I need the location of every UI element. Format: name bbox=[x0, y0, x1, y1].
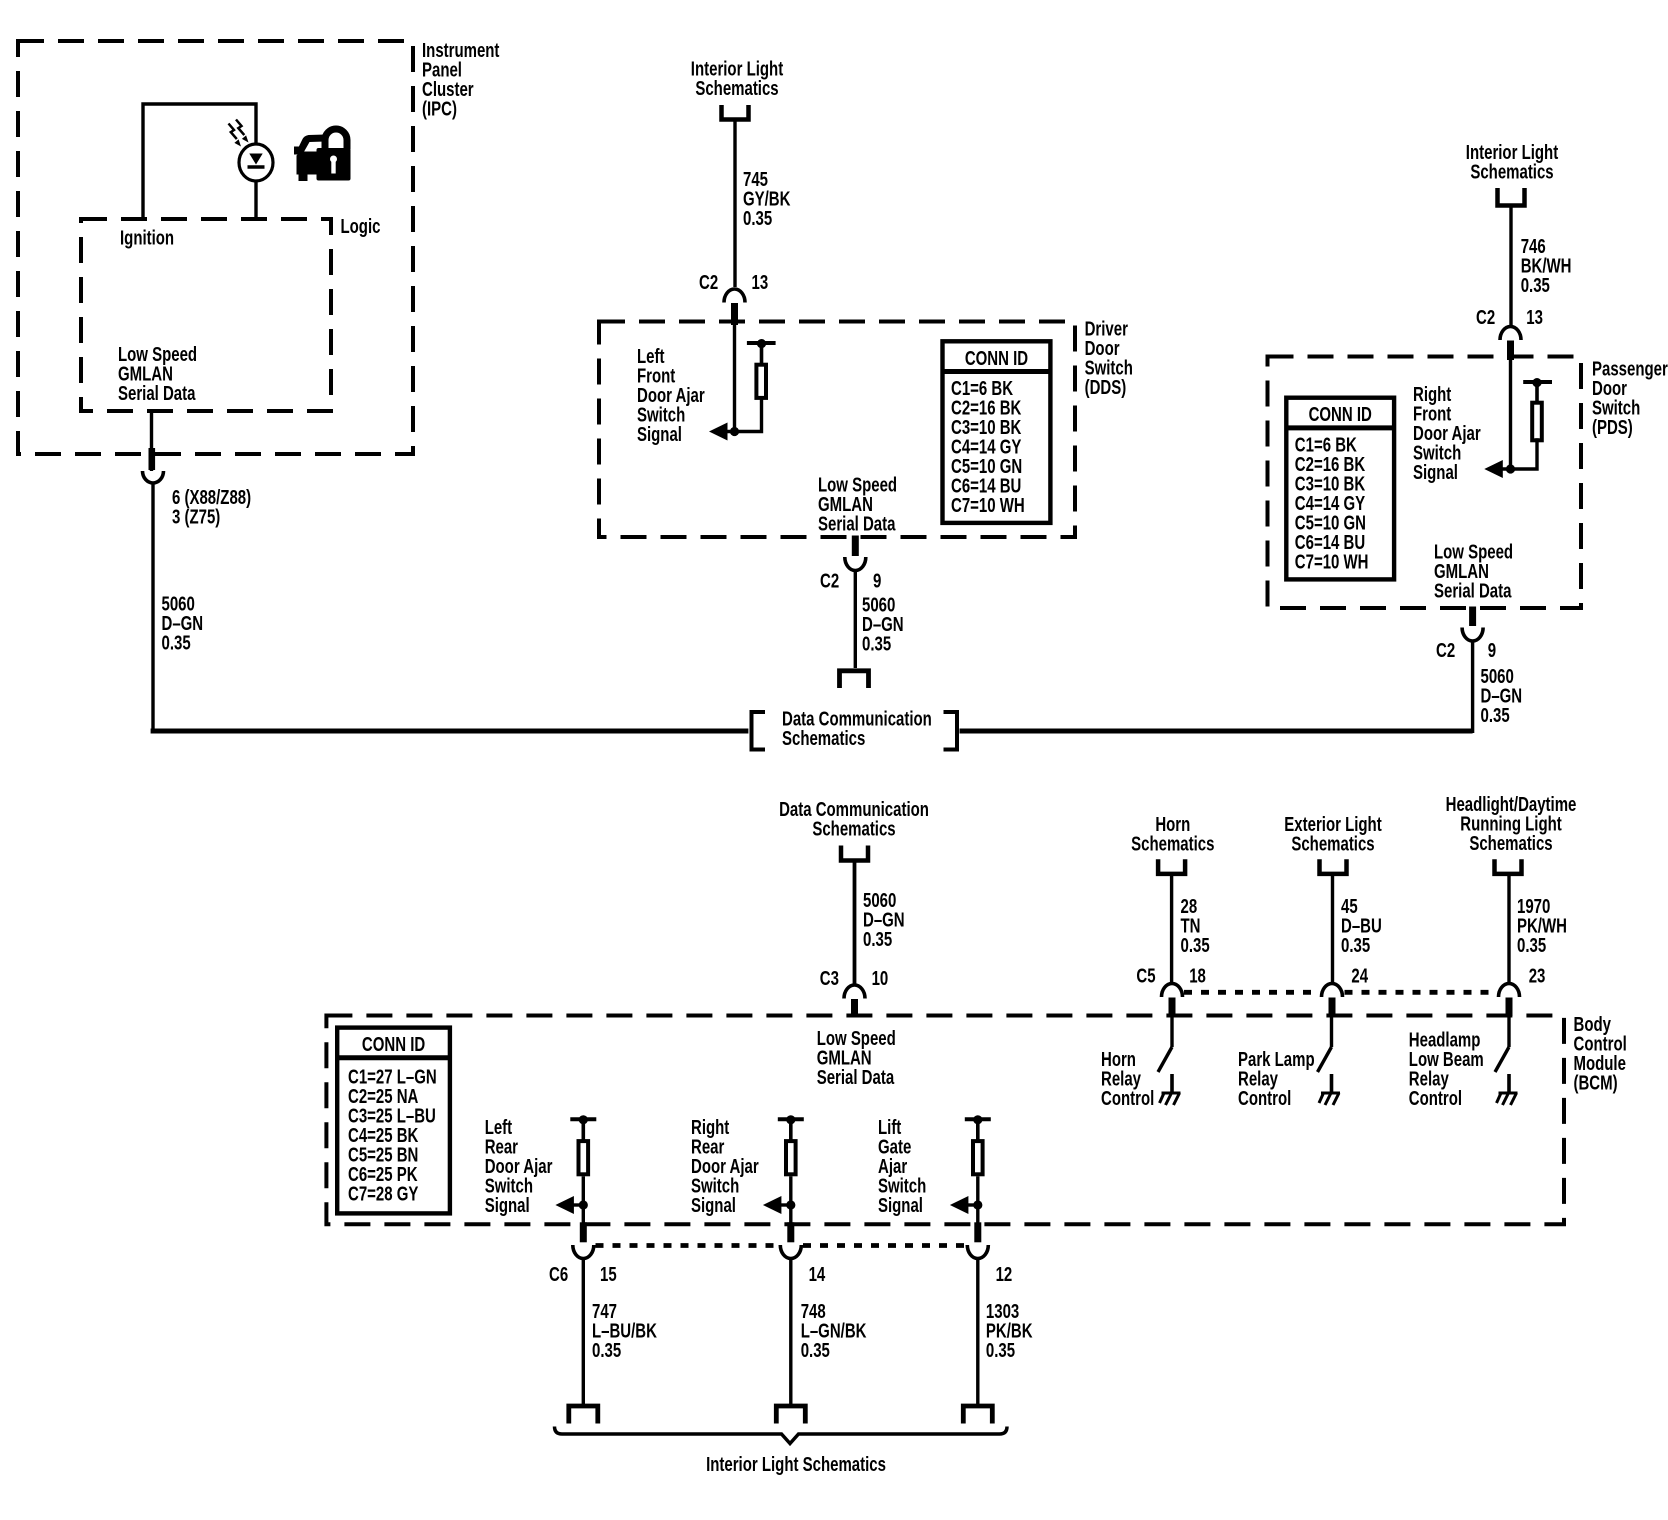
label wire 5060 D-GN 0.35 (IPC) bbox=[162, 593, 204, 655]
node junction (DDS) bbox=[730, 427, 739, 436]
label C6 pin 15 bbox=[549, 1263, 617, 1286]
connector C3 pin 10 into BCM bbox=[844, 985, 865, 1016]
svg-text:Control: Control bbox=[1101, 1087, 1154, 1110]
node junction (Right Rear Door Ajar Switch Signal) bbox=[786, 1200, 795, 1209]
wire resistor to junction (Lift Gate Ajar Switch Signal) bbox=[976, 1176, 979, 1205]
terminal bar above resistor (Left Rear Door Ajar Switch Signal) bbox=[570, 1115, 596, 1141]
svg-text:C2: C2 bbox=[1436, 639, 1455, 662]
svg-text:C2: C2 bbox=[699, 271, 718, 294]
label wire 747 L-BU/BK 0.35 bbox=[592, 1300, 657, 1362]
wire DDS switch signal bbox=[733, 322, 736, 432]
ground (Park Lamp relay) bbox=[1319, 1074, 1340, 1105]
off-page connector (interior light right) bbox=[1498, 188, 1525, 206]
svg-text:Signal: Signal bbox=[1413, 461, 1458, 484]
off-page connector (right rear door wire) bbox=[776, 1406, 805, 1424]
wire relay control (Headlamp) bbox=[1507, 1017, 1510, 1047]
wire arrow shaft (Lift Gate Ajar Switch Signal) bbox=[967, 1203, 978, 1206]
svg-text:3 (Z75): 3 (Z75) bbox=[172, 505, 220, 528]
svg-text:15: 15 bbox=[600, 1263, 617, 1286]
svg-text:C7=28 GY: C7=28 GY bbox=[348, 1182, 419, 1205]
wire arrow shaft (Left Rear Door Ajar Switch Signal) bbox=[572, 1203, 583, 1206]
label Low Speed GMLAN Serial Data (IPC) bbox=[118, 343, 197, 405]
label Lift Gate Ajar Switch Signal bbox=[878, 1116, 926, 1217]
svg-text:Interior Light Schematics: Interior Light Schematics bbox=[706, 1453, 886, 1476]
label DDS name bbox=[1085, 317, 1133, 398]
light-ray arrows into LED bbox=[229, 120, 249, 147]
dotted connector tie (BCM bottom) bbox=[596, 1243, 967, 1248]
label Low Speed GMLAN Serial Data (DDS) bbox=[818, 473, 897, 535]
terminal bar above resistor (Right Rear Door Ajar Switch Signal) bbox=[778, 1115, 804, 1141]
connector 6 (X88/Z88) / 3 (Z75) at IPC bbox=[143, 448, 164, 733]
box Driver Door Switch (DDS) bbox=[599, 322, 1075, 538]
svg-text:0.35: 0.35 bbox=[1341, 934, 1370, 957]
icon car with padlock (security indicator) bbox=[294, 129, 351, 181]
arrow switch signal (PDS) bbox=[1484, 460, 1503, 478]
label Low Speed GMLAN Serial Data (PDS) bbox=[1434, 540, 1513, 602]
svg-text:9: 9 bbox=[873, 570, 881, 593]
wire to connector (Right Rear Door Ajar Switch Signal) bbox=[789, 1205, 792, 1223]
svg-text:0.35: 0.35 bbox=[986, 1339, 1015, 1362]
connector C2 pin 9 out of DDS bbox=[845, 536, 866, 669]
label pin 24 bbox=[1351, 964, 1368, 987]
svg-text:0.35: 0.35 bbox=[862, 632, 891, 655]
svg-text:0.35: 0.35 bbox=[1521, 274, 1550, 297]
svg-text:Control: Control bbox=[1238, 1087, 1291, 1110]
svg-text:10: 10 bbox=[872, 967, 889, 990]
svg-text:C5: C5 bbox=[1136, 964, 1155, 987]
svg-text:Signal: Signal bbox=[485, 1194, 530, 1217]
switch relay contact (Park Lamp) bbox=[1318, 1047, 1332, 1072]
arrow switch signal (Left Rear Door Ajar Switch Signal) bbox=[555, 1196, 574, 1214]
off-page connector (interior light top) bbox=[722, 105, 749, 120]
table CONN ID (PDS) bbox=[1286, 398, 1394, 580]
label pin 14 bbox=[809, 1263, 826, 1286]
label Left Front Door Ajar Switch Signal bbox=[637, 345, 705, 446]
connector pin 24 into BCM bbox=[1322, 984, 1343, 1017]
svg-text:Schematics: Schematics bbox=[812, 817, 895, 840]
arrow switch signal (DDS) bbox=[709, 423, 728, 441]
label Logic bbox=[341, 215, 381, 238]
svg-text:0.35: 0.35 bbox=[1481, 704, 1510, 727]
label IPC name bbox=[422, 39, 500, 120]
node junction (PDS) bbox=[1506, 464, 1515, 473]
label Exterior Light Schematics bbox=[1284, 813, 1381, 855]
off-page connector (headlight) bbox=[1495, 859, 1522, 874]
wire resistor to junction (PDS) bbox=[1499, 438, 1537, 469]
resistor pull-up (PDS) bbox=[1532, 403, 1542, 441]
svg-text:0.35: 0.35 bbox=[743, 207, 772, 230]
label wire 28 TN 0.35 bbox=[1181, 895, 1210, 957]
svg-text:C7=10 WH: C7=10 WH bbox=[951, 494, 1025, 517]
label Interior Light Schematics (bottom) bbox=[706, 1453, 886, 1476]
box Instrument Panel Cluster (IPC) bbox=[18, 41, 413, 454]
label wire 746 BK/WH 0.35 bbox=[1521, 235, 1572, 297]
svg-text:9: 9 bbox=[1488, 639, 1496, 662]
connector C5 pin 18 into BCM bbox=[1162, 984, 1183, 1017]
label wire 45 D-BU 0.35 bbox=[1341, 895, 1382, 957]
wire PDS switch signal bbox=[1509, 357, 1512, 469]
svg-text:0.35: 0.35 bbox=[863, 928, 892, 951]
svg-text:C2: C2 bbox=[820, 570, 839, 593]
bracket right of Data Communication bbox=[944, 712, 958, 750]
arrow switch signal (Right Rear Door Ajar Switch Signal) bbox=[763, 1196, 782, 1214]
wire relay control (Park Lamp) bbox=[1330, 1017, 1333, 1047]
wire data bus right segment bbox=[960, 729, 1473, 734]
label wire 1970 PK/WH 0.35 bbox=[1517, 895, 1567, 957]
connector C6 pin 15 out of BCM bbox=[573, 1222, 594, 1404]
svg-text:0.35: 0.35 bbox=[801, 1339, 830, 1362]
svg-text:13: 13 bbox=[752, 271, 769, 294]
wire 745 bbox=[733, 121, 736, 287]
label Low Speed GMLAN Serial Data (BCM) bbox=[817, 1027, 896, 1089]
resistor (Lift Gate Ajar Switch Signal) bbox=[973, 1141, 983, 1174]
label C2 pin 13 (DDS) bbox=[699, 271, 768, 294]
label Park Lamp Relay Control bbox=[1238, 1048, 1315, 1110]
label Ignition bbox=[120, 226, 174, 249]
svg-text:Serial Data: Serial Data bbox=[818, 512, 896, 535]
label BCM name bbox=[1574, 1013, 1627, 1094]
svg-text:Schematics: Schematics bbox=[695, 77, 778, 100]
label 6 (X88/Z88) 3 (Z75) bbox=[172, 486, 251, 528]
label Interior Light Schematics (right) bbox=[1466, 141, 1558, 183]
dotted connector tie (BCM top) bbox=[1184, 990, 1497, 995]
box Passenger Door Switch (PDS) bbox=[1268, 357, 1582, 609]
svg-text:(PDS): (PDS) bbox=[1592, 416, 1633, 439]
label wire 748 L-GN/BK 0.35 bbox=[801, 1300, 867, 1362]
arrow switch signal (Lift Gate Ajar Switch Signal) bbox=[950, 1196, 969, 1214]
wire to connector (Left Rear Door Ajar Switch Signal) bbox=[582, 1205, 585, 1223]
svg-text:(IPC): (IPC) bbox=[422, 97, 457, 120]
ground (Headlamp relay) bbox=[1497, 1074, 1518, 1105]
svg-text:C2: C2 bbox=[1476, 306, 1495, 329]
bracket left of Data Communication bbox=[752, 712, 766, 750]
svg-text:24: 24 bbox=[1351, 964, 1368, 987]
label C2 pin 9 (PDS) bbox=[1436, 639, 1496, 662]
wire 5060 to BCM bbox=[853, 862, 857, 985]
node junction (Left Rear Door Ajar Switch Signal) bbox=[579, 1200, 588, 1209]
label C5 pin 18 bbox=[1136, 964, 1206, 987]
svg-text:Control: Control bbox=[1409, 1087, 1462, 1110]
label Data Communication Schematics (middle) bbox=[779, 798, 929, 840]
wire ignition to LED bbox=[143, 104, 256, 219]
off-page connector (data comm middle) bbox=[841, 846, 868, 861]
svg-text:Serial Data: Serial Data bbox=[817, 1066, 895, 1089]
label Headlamp Low Beam Relay Control bbox=[1409, 1028, 1484, 1109]
label Interior Light Schematics (top) bbox=[691, 58, 783, 100]
svg-text:(DDS): (DDS) bbox=[1085, 376, 1127, 399]
svg-text:C7=10 WH: C7=10 WH bbox=[1295, 550, 1369, 573]
svg-text:Schematics: Schematics bbox=[1291, 832, 1374, 855]
wire resistor to junction (DDS) bbox=[723, 399, 762, 431]
label Horn Relay Control bbox=[1101, 1048, 1154, 1110]
svg-text:Schematics: Schematics bbox=[1131, 832, 1214, 855]
svg-text:Ignition: Ignition bbox=[120, 226, 174, 249]
label Right Rear Door Ajar Switch Signal bbox=[691, 1116, 759, 1217]
box Logic (inner) bbox=[81, 219, 331, 411]
svg-text:Serial Data: Serial Data bbox=[1434, 579, 1512, 602]
svg-text:0.35: 0.35 bbox=[162, 632, 191, 655]
label Data Communication Schematics (bus) bbox=[782, 708, 932, 750]
svg-text:CONN ID: CONN ID bbox=[362, 1033, 425, 1056]
terminal bar above resistor (PDS) bbox=[1523, 378, 1552, 403]
svg-text:Serial Data: Serial Data bbox=[118, 382, 196, 405]
wire arrow shaft (Right Rear Door Ajar Switch Signal) bbox=[780, 1203, 791, 1206]
svg-text:18: 18 bbox=[1189, 964, 1206, 987]
wire 746 bbox=[1509, 207, 1512, 325]
connector pin 23 into BCM bbox=[1499, 984, 1520, 1017]
label wire 745 GY/BK 0.35 bbox=[743, 168, 791, 230]
ground (Horn relay) bbox=[1160, 1074, 1181, 1105]
table CONN ID (BCM) bbox=[337, 1028, 450, 1214]
connector C2 pin 9 out of PDS bbox=[1462, 607, 1483, 734]
label C3 pin 10 (BCM) bbox=[820, 967, 889, 990]
label Headlight/Daytime Running Light Schematics bbox=[1446, 793, 1577, 855]
wire resistor to junction (Right Rear Door Ajar Switch Signal) bbox=[789, 1176, 792, 1205]
svg-text:12: 12 bbox=[996, 1263, 1013, 1286]
LED indicator lamp bbox=[239, 144, 273, 219]
svg-text:0.35: 0.35 bbox=[592, 1339, 621, 1362]
label C2 pin 9 (DDS) bbox=[820, 570, 881, 593]
label wire 1303 PK/BK 0.35 bbox=[986, 1300, 1033, 1362]
label wire 5060 D-GN 0.35 (PDS) bbox=[1481, 665, 1523, 727]
svg-text:Signal: Signal bbox=[691, 1194, 736, 1217]
off-page connector (lift gate wire) bbox=[963, 1406, 992, 1424]
svg-text:Signal: Signal bbox=[878, 1194, 923, 1217]
off-page connector (horn) bbox=[1158, 859, 1185, 874]
label Right Front Door Ajar Switch Signal bbox=[1413, 383, 1481, 484]
svg-text:CONN ID: CONN ID bbox=[1309, 403, 1372, 426]
wire data bus left segment bbox=[151, 729, 749, 734]
switch relay contact (Headlamp) bbox=[1495, 1047, 1509, 1072]
svg-text:C6: C6 bbox=[549, 1263, 568, 1286]
svg-text:23: 23 bbox=[1529, 964, 1546, 987]
table CONN ID (DDS) bbox=[943, 341, 1051, 523]
wire to connector (Lift Gate Ajar Switch Signal) bbox=[976, 1205, 979, 1223]
label PDS name bbox=[1592, 357, 1668, 438]
svg-text:CONN ID: CONN ID bbox=[965, 347, 1028, 370]
svg-text:Schematics: Schematics bbox=[1469, 832, 1552, 855]
wire 45 bbox=[1331, 875, 1334, 983]
label wire 5060 D-GN 0.35 (DDS) bbox=[862, 593, 904, 655]
connector C2 pin 13 into PDS bbox=[1500, 327, 1521, 361]
svg-text:Schematics: Schematics bbox=[1470, 160, 1553, 183]
resistor (Right Rear Door Ajar Switch Signal) bbox=[786, 1141, 796, 1174]
off-page connector (exterior light) bbox=[1320, 859, 1347, 874]
svg-text:Signal: Signal bbox=[637, 423, 682, 446]
wire resistor to junction (Left Rear Door Ajar Switch Signal) bbox=[582, 1176, 585, 1205]
node junction (Lift Gate Ajar Switch Signal) bbox=[973, 1200, 982, 1209]
svg-text:14: 14 bbox=[809, 1263, 826, 1286]
svg-text:0.35: 0.35 bbox=[1517, 934, 1546, 957]
switch relay contact (Horn) bbox=[1158, 1047, 1172, 1072]
off-page connector to data bus (DDS) bbox=[840, 671, 869, 688]
svg-text:13: 13 bbox=[1526, 306, 1543, 329]
svg-text:0.35: 0.35 bbox=[1181, 934, 1210, 957]
wire relay control (Horn) bbox=[1170, 1017, 1173, 1047]
label C2 pin 13 (PDS) bbox=[1476, 306, 1543, 329]
label pin 12 bbox=[996, 1263, 1013, 1286]
terminal bar above resistor (DDS) bbox=[747, 339, 776, 364]
label Horn Schematics bbox=[1131, 813, 1214, 855]
svg-text:Schematics: Schematics bbox=[782, 727, 865, 750]
connector pin 12 out of BCM bbox=[967, 1222, 988, 1404]
svg-text:(BCM): (BCM) bbox=[1574, 1071, 1618, 1094]
resistor (Left Rear Door Ajar Switch Signal) bbox=[579, 1141, 589, 1174]
svg-text:C3: C3 bbox=[820, 967, 839, 990]
wire 1970 bbox=[1507, 875, 1510, 983]
resistor pull-up (DDS) bbox=[756, 365, 766, 398]
label pin 23 bbox=[1529, 964, 1546, 987]
off-page connector (left rear door wire) bbox=[569, 1406, 598, 1424]
brace interior light schematics bbox=[555, 1427, 1008, 1444]
box Body Control Module (BCM) bbox=[326, 1016, 1564, 1225]
label Left Rear Door Ajar Switch Signal bbox=[485, 1116, 553, 1217]
svg-text:Logic: Logic bbox=[341, 215, 381, 238]
wire 28 bbox=[1170, 875, 1173, 983]
terminal bar above resistor (Lift Gate Ajar Switch Signal) bbox=[965, 1115, 991, 1141]
label wire 5060 D-GN 0.35 (BCM) bbox=[863, 889, 905, 951]
connector C2 pin 13 into DDS bbox=[724, 289, 745, 325]
wire IPC GMLAN exit bbox=[150, 411, 153, 471]
connector pin 14 out of BCM bbox=[780, 1222, 801, 1404]
